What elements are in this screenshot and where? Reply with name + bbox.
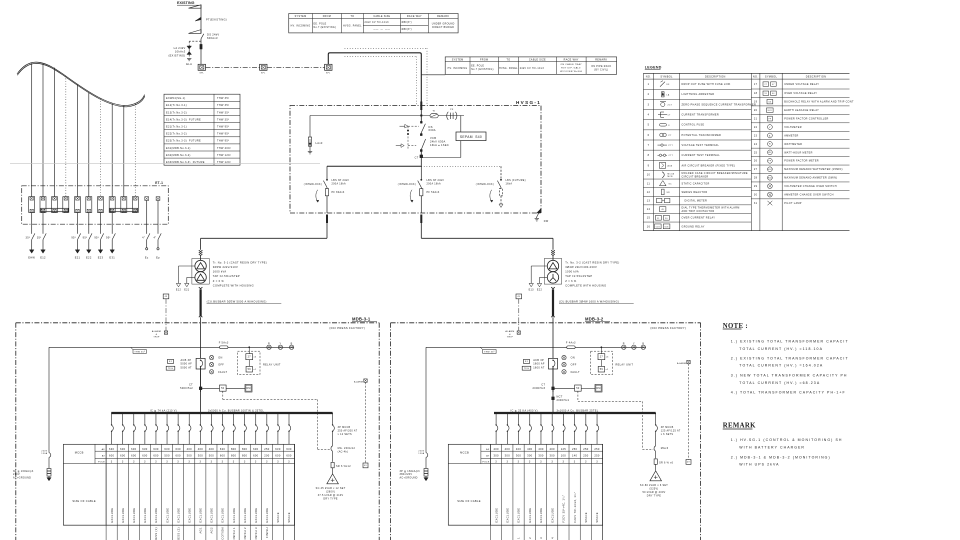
svg-text:630: 630: [142, 447, 148, 451]
svg-text:EARTH LEAKAGE RELAY: EARTH LEAKAGE RELAY: [784, 109, 819, 112]
svg-text:4: 4: [648, 114, 650, 117]
svg-text:2.) EXISTING TOTAL TRANSFORMER: 2.) EXISTING TOTAL TRANSFORMER CAPACIT: [731, 356, 849, 360]
svg-text:5000 AT: 5000 AT: [181, 366, 193, 369]
svg-text:AMMETER: AMMETER: [784, 134, 798, 137]
svg-text:300: 300: [493, 454, 499, 458]
svg-text:(BY CIVIL): (BY CIVIL): [594, 70, 608, 72]
svg-text:10: 10: [647, 174, 651, 177]
svg-text:EXCLUDE: EXCLUDE: [165, 508, 169, 523]
svg-text:200: 200: [264, 454, 270, 458]
svg-text:SR 6 % x6: SR 6 % x6: [659, 461, 674, 464]
svg-text:SPL: SPL: [261, 72, 266, 74]
svg-text:AG1: AG1: [199, 527, 203, 534]
svg-text:COMPLETE WITH HOUSING: COMPLETE WITH HOUSING: [213, 283, 254, 287]
svg-text:3: 3: [648, 103, 650, 106]
svg-text:TO: TO: [350, 15, 354, 18]
svg-text:UNDER VOLTAGE RELAY: UNDER VOLTAGE RELAY: [784, 83, 819, 86]
svg-text:3Ø3W 22kV/210V: 3Ø3W 22kV/210V: [213, 265, 238, 269]
svg-text:E21(Tr.No.3-1): E21(Tr.No.3-1): [166, 126, 187, 129]
svg-text:ALARM: ALARM: [505, 330, 514, 333]
svg-text:16: 16: [647, 225, 651, 228]
svg-text:RELAY UNIT: RELAY UNIT: [616, 363, 634, 366]
svg-text:EXCLUDE: EXCLUDE: [187, 508, 191, 523]
svg-text:HV. INCOMING: HV. INCOMING: [448, 68, 468, 70]
svg-text:250: 250: [583, 454, 589, 458]
svg-text:FROM: FROM: [480, 58, 488, 61]
svg-text:3Ø4W 22kV/400-230V: 3Ø4W 22kV/400-230V: [565, 265, 597, 269]
svg-text:EXCLUDE: EXCLUDE: [110, 508, 114, 523]
svg-text:2.) MDB-3-1 & MDB-3-2 (MONITOR: 2.) MDB-3-1 & MDB-3-2 (MONITORING): [731, 455, 831, 459]
svg-text:DIGITAL METER: DIGITAL METER: [682, 199, 708, 202]
svg-text:REMARK: REMARK: [437, 15, 449, 18]
svg-text:E21: E21: [184, 289, 190, 292]
svg-text:EXCLUDE: EXCLUDE: [550, 508, 554, 523]
svg-text:THW 120²: THW 120²: [217, 154, 231, 157]
svg-text:THW 35²: THW 35²: [484, 351, 495, 354]
svg-text:800: 800: [242, 454, 248, 458]
svg-text:FROM: FROM: [323, 15, 331, 18]
svg-text:DM: DM: [596, 387, 600, 390]
svg-text:50: 50: [221, 387, 225, 390]
svg-text:OFF: OFF: [571, 364, 577, 367]
svg-text:3: 3: [144, 461, 146, 464]
svg-text:VOLTMETER CHANGE OVER SWITCH: VOLTMETER CHANGE OVER SWITCH: [784, 185, 837, 188]
svg-text:DF: DF: [667, 84, 671, 86]
svg-text:EXCLUDE: EXCLUDE: [506, 508, 510, 523]
svg-text:IC ≧ 25 KA (400 V): IC ≧ 25 KA (400 V): [511, 409, 538, 412]
svg-text:3: 3: [539, 537, 543, 539]
svg-text:11: 11: [647, 182, 651, 185]
svg-text:ZCT: ZCT: [668, 104, 673, 106]
svg-text:REMARK: REMARK: [595, 58, 607, 61]
svg-text:4.) TOTAL TRANSFORMER CAPACITY: 4.) TOTAL TRANSFORMER CAPACITY PH-1+F: [731, 390, 846, 394]
svg-text:2000/5x1: 2000/5x1: [557, 399, 570, 402]
svg-text:400: 400: [550, 447, 556, 451]
svg-text:19: 19: [754, 101, 758, 104]
svg-text:BUCHHOLZ RELAY WITH ALARM AND: BUCHHOLZ RELAY WITH ALARM AND TRIP CONT: [784, 101, 854, 104]
svg-text:ALARM: ALARM: [677, 362, 686, 365]
svg-text:EXCLUDE: EXCLUDE: [176, 508, 180, 523]
svg-text:EXCLUDE: EXCLUDE: [517, 508, 521, 523]
svg-text:W/COVER W=300: W/COVER W=300: [560, 71, 583, 73]
svg-text:20: 20: [754, 109, 758, 112]
svg-text:UNDER GROUND: UNDER GROUND: [432, 23, 455, 25]
svg-text:MCCB: MCCB: [460, 450, 469, 454]
svg-text:23: 23: [754, 134, 758, 137]
svg-text:DESCRIPTION: DESCRIPTION: [705, 75, 726, 78]
svg-text:MDB-3-2: MDB-3-2: [585, 317, 604, 322]
svg-text:ZERO PHASE SEQUENCE CURRENT TR: ZERO PHASE SEQUENCE CURRENT TRANSFORMER: [682, 103, 757, 106]
svg-text:E21: E21: [75, 256, 81, 260]
svg-text:GROUND RELAY: GROUND RELAY: [682, 225, 705, 228]
svg-text:E13(Tr.No.3-2): E13(Tr.No.3-2): [166, 111, 187, 114]
svg-text:SPL: SPL: [200, 72, 205, 74]
svg-text:ON CABLE TRAY: ON CABLE TRAY: [560, 63, 582, 66]
svg-text:7: 7: [648, 144, 650, 147]
svg-text:MGx6: MGx6: [661, 447, 669, 450]
svg-text:26: 26: [754, 160, 758, 163]
svg-text:FINISH 2: FINISH 2: [243, 527, 247, 540]
svg-text:400: 400: [505, 447, 511, 451]
svg-text:21: 21: [754, 117, 758, 120]
svg-text:CT: CT: [415, 156, 419, 159]
svg-text:3: 3: [166, 461, 168, 464]
svg-text:3: 3: [199, 461, 201, 464]
svg-text:27: 27: [765, 84, 768, 86]
svg-text:Tr. No. 3-2 (CAST RESIN DRY TY: Tr. No. 3-2 (CAST RESIN DRY TYPE): [565, 260, 619, 264]
svg-text:Z = 6 %: Z = 6 %: [213, 279, 225, 283]
svg-text:63: 63: [769, 102, 772, 104]
svg-text:400: 400: [516, 447, 522, 451]
svg-text:HV. INCOMING: HV. INCOMING: [291, 26, 311, 28]
svg-text:EXW04(SG-1): EXW04(SG-1): [166, 97, 186, 100]
svg-text:LIGHTNING ARRESTER: LIGHTNING ARRESTER: [682, 93, 715, 96]
svg-text:Tr. No. 3-1 (CAST RESIN DRY TY: Tr. No. 3-1 (CAST RESIN DRY TYPE): [213, 260, 267, 264]
svg-text:600: 600: [275, 454, 281, 458]
svg-text:3: 3: [585, 461, 587, 464]
svg-text:MDB-3-1: MDB-3-1: [352, 317, 371, 322]
svg-text:Ø80(3″): Ø80(3″): [402, 22, 412, 24]
svg-text:1000 kVA: 1000 kVA: [565, 270, 579, 274]
svg-text:SR 6 %x12: SR 6 %x12: [336, 465, 351, 468]
svg-text:35²: 35²: [37, 236, 42, 239]
svg-text:24kV CV 70²-1Cx3: 24kV CV 70²-1Cx3: [365, 21, 390, 24]
svg-text:SPACE: SPACE: [276, 512, 280, 523]
svg-text:600: 600: [109, 454, 115, 458]
svg-text:PT(EXISTING): PT(EXISTING): [206, 18, 227, 22]
svg-text:ACB: ACB: [668, 164, 673, 167]
svg-text:25: 25: [754, 151, 758, 154]
svg-text:S1: S1: [525, 361, 529, 363]
svg-text:PRESS (1): PRESS (1): [154, 527, 158, 540]
svg-text:1.) HV.SG-1 (CONTROL & MONITOR: 1.) HV.SG-1 (CONTROL & MONITORING) SH: [731, 438, 843, 442]
svg-text:(INTERLOCK): (INTERLOCK): [304, 184, 322, 186]
svg-text:SYMBOL: SYMBOL: [765, 75, 778, 78]
svg-text:F2CV 35²+4C, 1¼″: F2CV 35²+4C, 1¼″: [562, 495, 566, 523]
svg-text:3: 3: [244, 461, 246, 464]
svg-text:3: 3: [133, 461, 135, 464]
svg-text:E12: E12: [176, 289, 182, 292]
svg-text:CURRENT TEST TERMINAL: CURRENT TEST TERMINAL: [682, 154, 721, 157]
svg-text:ALARM: ALARM: [354, 381, 363, 384]
svg-text:ACB 3P: ACB 3P: [181, 359, 192, 362]
svg-text:SYMBOL: SYMBOL: [660, 75, 673, 78]
svg-text:DECOTION: DECOTION: [221, 527, 225, 540]
svg-text:ELR: ELR: [768, 110, 773, 112]
svg-text:EXCLUDE: EXCLUDE: [243, 508, 247, 523]
svg-text:1600 kVA: 1600 kVA: [213, 270, 227, 274]
svg-text:DS 24kV: DS 24kV: [207, 32, 219, 36]
svg-text:ELA: ELA: [186, 62, 192, 66]
svg-text:AC+GROUND: AC+GROUND: [400, 477, 418, 480]
svg-text:VOLTAGE TEST TERMINAL: VOLTAGE TEST TERMINAL: [682, 144, 720, 147]
svg-text:THW 35²: THW 35²: [134, 351, 145, 354]
svg-text:EXCLUDE: EXCLUDE: [210, 508, 214, 523]
svg-text:3: 3: [563, 461, 565, 464]
svg-text:ON PIPE RACK: ON PIPE RACK: [591, 65, 611, 68]
svg-text:(INTERLOCK): (INTERLOCK): [398, 184, 416, 186]
svg-text:LA: LA: [667, 93, 670, 96]
svg-text:59: 59: [248, 368, 252, 371]
svg-text:SC: SC: [669, 183, 673, 185]
svg-text:EXCLUDE: EXCLUDE: [132, 508, 136, 523]
svg-text:24kV 630A: 24kV 630A: [430, 140, 446, 144]
svg-text:Ec: Ec: [145, 256, 149, 260]
svg-text:EXCLUDE: EXCLUDE: [121, 508, 125, 523]
svg-text:TOTAL CURRENT (HV.) =118.10A: TOTAL CURRENT (HV.) =118.10A: [739, 347, 823, 351]
svg-text:3: 3: [255, 461, 257, 464]
svg-text:Ep: Ep: [156, 256, 160, 260]
svg-text:x 12 SETS: x 12 SETS: [338, 433, 352, 436]
svg-text:6: 6: [648, 134, 650, 137]
svg-text:24: 24: [754, 143, 758, 146]
svg-text:800: 800: [231, 447, 237, 451]
svg-text:F2CV 70²-1Cx4, 1¼″: F2CV 70²-1Cx4, 1¼″: [573, 492, 577, 523]
svg-text:4: 4: [550, 537, 554, 539]
svg-text:E14(Tr.No.3-3) FUTURE: E14(Tr.No.3-3) FUTURE: [166, 118, 201, 121]
svg-text:E31(MDB.No.3-1): E31(MDB.No.3-1): [166, 147, 191, 150]
svg-text:LEGEND: LEGEND: [645, 66, 662, 70]
svg-text:51: 51: [657, 218, 660, 220]
svg-text:HVSG-1: HVSG-1: [516, 100, 541, 105]
svg-text:14: 14: [647, 208, 651, 211]
svg-text:3: 3: [551, 461, 553, 464]
svg-text:800: 800: [242, 447, 248, 451]
svg-text:EXCLUDE: EXCLUDE: [494, 508, 498, 523]
svg-text:630: 630: [275, 447, 281, 451]
svg-text:(DCI PRESS FACTORY): (DCI PRESS FACTORY): [650, 326, 686, 330]
svg-text:PF 80Ax3: PF 80Ax3: [332, 191, 345, 194]
svg-text:HVSG. PANEL: HVSG. PANEL: [499, 67, 518, 70]
svg-text:(CU.BUSBAR 3Ø3W 5000 A W/HOUSI: (CU.BUSBAR 3Ø3W 5000 A W/HOUSING): [207, 299, 267, 303]
svg-text:29: 29: [754, 185, 758, 188]
svg-text:800: 800: [231, 454, 237, 458]
svg-text:TOTAL CURRENT (HV.) =164.02A: TOTAL CURRENT (HV.) =164.02A: [739, 364, 823, 368]
svg-text:CABLE SIZE: CABLE SIZE: [529, 58, 546, 61]
svg-text:SPACE: SPACE: [595, 512, 599, 523]
svg-text:IC ≧ 74 kA (210 V): IC ≧ 74 kA (210 V): [150, 409, 177, 412]
svg-text:EE. POLE: EE. POLE: [471, 65, 484, 67]
svg-text:5: 5: [648, 124, 650, 127]
svg-text:10kAx3: 10kAx3: [175, 50, 186, 54]
svg-text:CABLE SIZE: CABLE SIZE: [373, 15, 390, 18]
svg-text:500: 500: [209, 454, 215, 458]
svg-text:DM: DM: [246, 387, 250, 390]
svg-text:22: 22: [754, 126, 758, 129]
svg-text:COMPLETE WITH HOUSING: COMPLETE WITH HOUSING: [565, 283, 606, 287]
svg-text:TAP ±2.5%x2STEP: TAP ±2.5%x2STEP: [213, 274, 240, 278]
svg-text:EXISTING: EXISTING: [177, 1, 195, 5]
svg-text:MDW: MDW: [768, 169, 773, 171]
svg-text:4": 4": [142, 236, 145, 239]
svg-text:125: 125: [561, 447, 567, 451]
svg-text:250: 250: [264, 447, 270, 451]
svg-text:MCB: MCB: [668, 176, 674, 178]
svg-text:x 6 SETS: x 6 SETS: [661, 433, 674, 436]
svg-text:50: 50: [665, 218, 668, 220]
svg-text:PF: PF: [769, 118, 772, 120]
svg-text:(CU.BUSBAR 3Ø4W 1600 A W/HOUSI: (CU.BUSBAR 3Ø4W 1600 A W/HOUSING): [559, 299, 619, 303]
svg-text:EXCLUDE: EXCLUDE: [232, 508, 236, 523]
svg-text:3: 3: [188, 461, 190, 464]
svg-text:Y: Y: [279, 342, 281, 345]
svg-text:AG2: AG2: [210, 527, 214, 534]
svg-text:PF 50Ax3: PF 50Ax3: [427, 191, 440, 194]
svg-text:250: 250: [583, 447, 589, 451]
svg-text:630: 630: [164, 447, 170, 451]
svg-text:DS: DS: [429, 125, 433, 129]
svg-text:600: 600: [131, 454, 137, 458]
svg-text:EE. POLE: EE. POLE: [314, 23, 327, 25]
svg-text:600: 600: [142, 454, 148, 458]
svg-text:51G: 51G: [656, 226, 661, 228]
svg-text:FINISH: FINISH: [265, 527, 269, 538]
svg-text:SERIES REACTOR: SERIES REACTOR: [682, 191, 708, 194]
svg-text:3: 3: [233, 461, 235, 464]
svg-text:THW 95²: THW 95²: [217, 140, 229, 143]
svg-text:64: 64: [772, 93, 775, 95]
svg-text:27: 27: [600, 356, 604, 359]
svg-text:NO.: NO.: [753, 75, 758, 78]
svg-text:8: 8: [648, 154, 650, 157]
svg-text:E22(Tr.No.3-2): E22(Tr.No.3-2): [166, 133, 187, 136]
svg-text:250: 250: [594, 454, 600, 458]
svg-text:PF: PF: [450, 109, 454, 111]
svg-text:RACE WAY: RACE WAY: [407, 15, 422, 18]
svg-text:TRIP: TRIP: [153, 336, 159, 338]
svg-text:630A: 630A: [429, 128, 436, 132]
svg-text:1600 AF: 1600 AF: [533, 363, 545, 366]
svg-text:E22: E22: [86, 256, 92, 260]
svg-text:300: 300: [505, 454, 511, 458]
svg-text:600: 600: [176, 454, 182, 458]
svg-text:600: 600: [220, 454, 226, 458]
svg-text:POTENTIAL TRANSFORMER: POTENTIAL TRANSFORMER: [682, 134, 722, 137]
svg-text:DROP OUT FUSE WITH FUSE LINK: DROP OUT FUSE WITH FUSE LINK: [682, 83, 731, 86]
svg-text:630: 630: [109, 447, 115, 451]
svg-text:24kV CV 70²-1Cx3: 24kV CV 70²-1Cx3: [520, 67, 545, 70]
svg-text:50G: 50G: [665, 226, 670, 228]
svg-text:400: 400: [187, 447, 193, 451]
svg-text:FAULT: FAULT: [571, 371, 580, 374]
svg-text:3: 3: [540, 461, 542, 464]
svg-text:PILOT LAMP: PILOT LAMP: [784, 202, 802, 205]
svg-text:3: 3: [518, 461, 520, 464]
svg-text:1: 1: [517, 537, 521, 539]
svg-text:630: 630: [131, 447, 137, 451]
svg-text:300: 300: [538, 454, 544, 458]
svg-text:No.7 (EXISTING): No.7 (EXISTING): [471, 69, 494, 71]
svg-text:600Ax3: 600Ax3: [207, 36, 218, 40]
svg-text:28: 28: [754, 177, 758, 180]
svg-text:TFG: TFG: [524, 368, 529, 370]
svg-text:CT: CT: [668, 115, 672, 117]
svg-text:3: 3: [177, 461, 179, 464]
svg-text:FINISH 1: FINISH 1: [232, 527, 236, 540]
svg-text:300: 300: [198, 454, 204, 458]
svg-text:ET-1: ET-1: [155, 181, 163, 185]
svg-text:AMMETER CHANGE OVER SWITCH: AMMETER CHANGE OVER SWITCH: [784, 194, 834, 197]
svg-text:AND TRIP CONTACTOR: AND TRIP CONTACTOR: [682, 210, 715, 213]
svg-text:THW 35²: THW 35²: [217, 104, 229, 107]
svg-text:VCB: VCB: [430, 136, 436, 140]
svg-text:THW 35²: THW 35²: [217, 111, 229, 114]
svg-text:5000/5x2: 5000/5x2: [180, 387, 193, 390]
svg-text:THW 35²: THW 35²: [217, 118, 229, 121]
svg-text:HOT DIP. GALV.: HOT DIP. GALV.: [561, 66, 581, 69]
svg-text:95²: 95²: [94, 236, 99, 239]
svg-text:630: 630: [120, 447, 126, 451]
svg-text:(DCI PRESS FACTORY): (DCI PRESS FACTORY): [329, 326, 365, 330]
svg-text:THW 35²: THW 35²: [217, 97, 229, 100]
svg-text:15: 15: [647, 217, 651, 220]
svg-text:Y: Y: [633, 342, 635, 345]
svg-text:R: R: [268, 342, 270, 345]
svg-text:59: 59: [600, 368, 604, 371]
svg-text:3: 3: [506, 461, 508, 464]
svg-text:3: 3: [495, 461, 497, 464]
svg-text:3: 3: [574, 461, 576, 464]
svg-text:3.) NEW TOTAL TRANSFORMER CAPA: 3.) NEW TOTAL TRANSFORMER CAPACITY PH: [731, 374, 848, 378]
svg-text:TRIP: TRIP: [507, 336, 513, 338]
svg-text:SPACE: SPACE: [584, 512, 588, 523]
svg-text:CONTROL FUSE: CONTROL FUSE: [682, 124, 705, 127]
svg-text:SIZE OF CABLE: SIZE OF CABLE: [72, 499, 95, 503]
svg-text:630: 630: [153, 447, 159, 451]
svg-text:E32(MDB.No.3-2): E32(MDB.No.3-2): [166, 154, 191, 157]
svg-text:EXCLUDE: EXCLUDE: [539, 508, 543, 523]
svg-text:THW 400²: THW 400²: [217, 147, 231, 150]
svg-text:VS: VS: [769, 186, 771, 188]
svg-text:CURRENT TRANSFORMER: CURRENT TRANSFORMER: [682, 114, 719, 117]
svg-text:FINISH 3: FINISH 3: [254, 527, 258, 540]
svg-text:RELAY UNIT: RELAY UNIT: [263, 363, 281, 366]
svg-text:200A 16kA: 200A 16kA: [427, 182, 442, 185]
svg-text:Ø80(3″): Ø80(3″): [402, 29, 412, 31]
svg-text:600: 600: [120, 454, 126, 458]
svg-text:13: 13: [647, 199, 651, 202]
svg-text:630: 630: [176, 447, 182, 451]
svg-text:NO.: NO.: [646, 75, 651, 78]
svg-text:3: 3: [529, 461, 531, 464]
svg-text:3: 3: [222, 461, 224, 464]
svg-text:F 4Ax3: F 4Ax3: [566, 341, 576, 344]
svg-text:E23(Tr.No.3-3) FUTURE: E23(Tr.No.3-3) FUTURE: [166, 140, 201, 143]
svg-text:OVER VOLTAGE RELAY: OVER VOLTAGE RELAY: [784, 92, 817, 95]
svg-text:E23: E23: [98, 256, 104, 260]
svg-text:WITH BATTERY CHARGER: WITH BATTERY CHARGER: [739, 445, 805, 449]
svg-text:POWER FACTOR METER: POWER FACTOR METER: [784, 160, 819, 163]
svg-text:E12(Tr.No.3-1): E12(Tr.No.3-1): [166, 104, 187, 107]
svg-text:1.) EXISTING TOTAL TRANSFORMER: 1.) EXISTING TOTAL TRANSFORMER CAPACIT: [731, 340, 849, 344]
svg-text:3: 3: [277, 461, 279, 464]
svg-text:STATIC CAPACITOR: STATIC CAPACITOR: [682, 182, 710, 185]
svg-text:ON: ON: [218, 357, 222, 360]
svg-text:3: 3: [155, 461, 157, 464]
svg-text:50: 50: [576, 387, 580, 390]
svg-text:E22: E22: [537, 289, 543, 292]
svg-text:600: 600: [253, 454, 259, 458]
svg-text:600: 600: [153, 454, 159, 458]
svg-text:500: 500: [164, 454, 170, 458]
svg-text:400: 400: [209, 447, 215, 451]
svg-text:EXCLUDE: EXCLUDE: [528, 508, 532, 523]
svg-text:TAP ±2.5%x2STEP: TAP ±2.5%x2STEP: [565, 274, 592, 278]
svg-text:200A 16kA: 200A 16kA: [332, 182, 347, 185]
svg-text:630: 630: [220, 447, 226, 451]
svg-text:R: R: [623, 342, 625, 345]
svg-text:ALARM: ALARM: [152, 330, 161, 333]
